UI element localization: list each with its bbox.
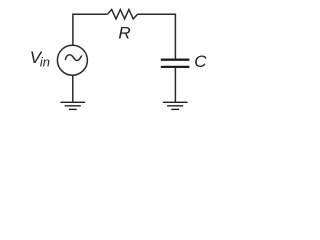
wire top-left: source top to resistor xyxy=(73,14,108,45)
svg-text:R: R xyxy=(118,23,130,42)
resistor R xyxy=(107,10,137,19)
ground (capacitor) xyxy=(163,102,188,109)
wire source to ground xyxy=(72,75,74,102)
svg-text:in: in xyxy=(40,55,50,70)
wire top-right: resistor to capacitor xyxy=(138,14,176,59)
wire capacitor to ground xyxy=(174,68,176,102)
capacitor C xyxy=(161,60,190,67)
label V_in xyxy=(30,48,50,69)
sine symbol inside source xyxy=(65,55,81,61)
ground (source) xyxy=(60,102,85,109)
svg-text:C: C xyxy=(194,52,207,71)
source V_in xyxy=(57,45,87,75)
